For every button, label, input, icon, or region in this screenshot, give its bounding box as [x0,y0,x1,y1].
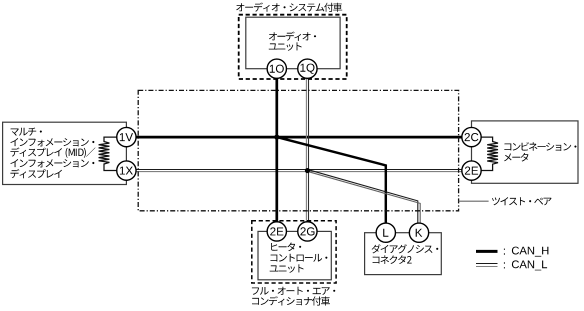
connector pin 1O (audio, CAN_H) [267,59,286,78]
label: audio-system-equipped vehicles (top) [236,3,342,12]
label: MID unit line 3 [10,148,95,158]
resistor (terminating) in MID display unit with leads [99,137,117,170]
legend text CAN_H [512,247,549,257]
wire: CAN_L diagonal branch to diagnosis pin K lower line [309,172,421,230]
wire: CAN_L diagonal branch to diagnosis pin K upper line [307,169,418,230]
label: diagnosis connector line 2 [373,255,412,264]
wire: CAN_H diagonal branch to diagnosis pin L [277,137,386,230]
connector pin 2C (meter, CAN_H) [462,127,481,146]
junction node: CAN_L bus/branch [305,168,310,173]
connector pin 2G (heater, CAN_L) [298,222,317,241]
legend text CAN_L [512,260,547,270]
twisted-pair region chain-dashed box [138,90,458,210]
connector pin K (diagnosis, CAN_L) [409,223,428,242]
wire: CAN_H bus 1V-2C [136,136,462,139]
legend: CAN_L double line sample [476,263,498,265]
label: heater control unit line 2 [271,254,328,262]
box: multi-information display unit [3,122,127,184]
wire: CAN_L bus lower line 1X-2E [136,171,462,173]
connector pin 1V (MID, CAN_H) [117,127,136,146]
wire: CAN_H vertical branch 1O to heater 2E [275,70,278,229]
label: full-auto air conditioner line 2 [252,296,330,305]
label: heater control unit line 3 [270,264,304,272]
label: audio unit line 2 [269,42,302,50]
label: MID unit line 5 [10,169,62,178]
box: audio unit [246,17,340,68]
label: MID unit line 4 [10,159,94,167]
connector pin 1X (MID, CAN_L) [117,161,136,180]
legend text colon H [504,249,505,255]
label: heater control unit line 1 [271,243,301,252]
legend: CAN_H thick line sample [476,250,498,253]
resistor (terminating) in combination meter with leads [481,137,498,170]
wire: CAN_L bus upper line 1X-2E [136,169,462,171]
leader line: twisted pair callout [459,200,489,202]
label: combination meter line 2 [504,153,529,162]
box: heater control unit [258,231,331,279]
box: diagnosis connector 2 [365,233,442,275]
heater dashed box (full-auto A/C) [252,221,336,283]
box: combination meter [472,121,579,183]
label: combination meter line 1 [504,142,576,151]
label: twisted pair [492,197,552,205]
label: MID unit line 2 [10,138,94,146]
label: full-auto air conditioner line 1 [252,287,335,295]
connector pin 2E (heater, CAN_H) [267,222,286,241]
connector pin 2E (meter, CAN_L) [462,161,481,180]
label: MID unit line 1 [11,128,42,136]
connector pin L (diagnosis, CAN_H) [376,223,395,242]
label: diagnosis connector line 1 [372,244,439,253]
audio system dashed box [239,15,347,79]
junction node: CAN_H bus/branch [274,135,279,140]
connector pin 1Q (audio, CAN_L) [298,59,317,78]
wire: CAN_L vertical branch right line 1Q-2G [308,70,310,229]
wire: CAN_L vertical branch left line 1Q-2G [305,70,307,229]
label: audio unit line 1 [269,32,316,41]
legend text colon L [504,262,505,268]
